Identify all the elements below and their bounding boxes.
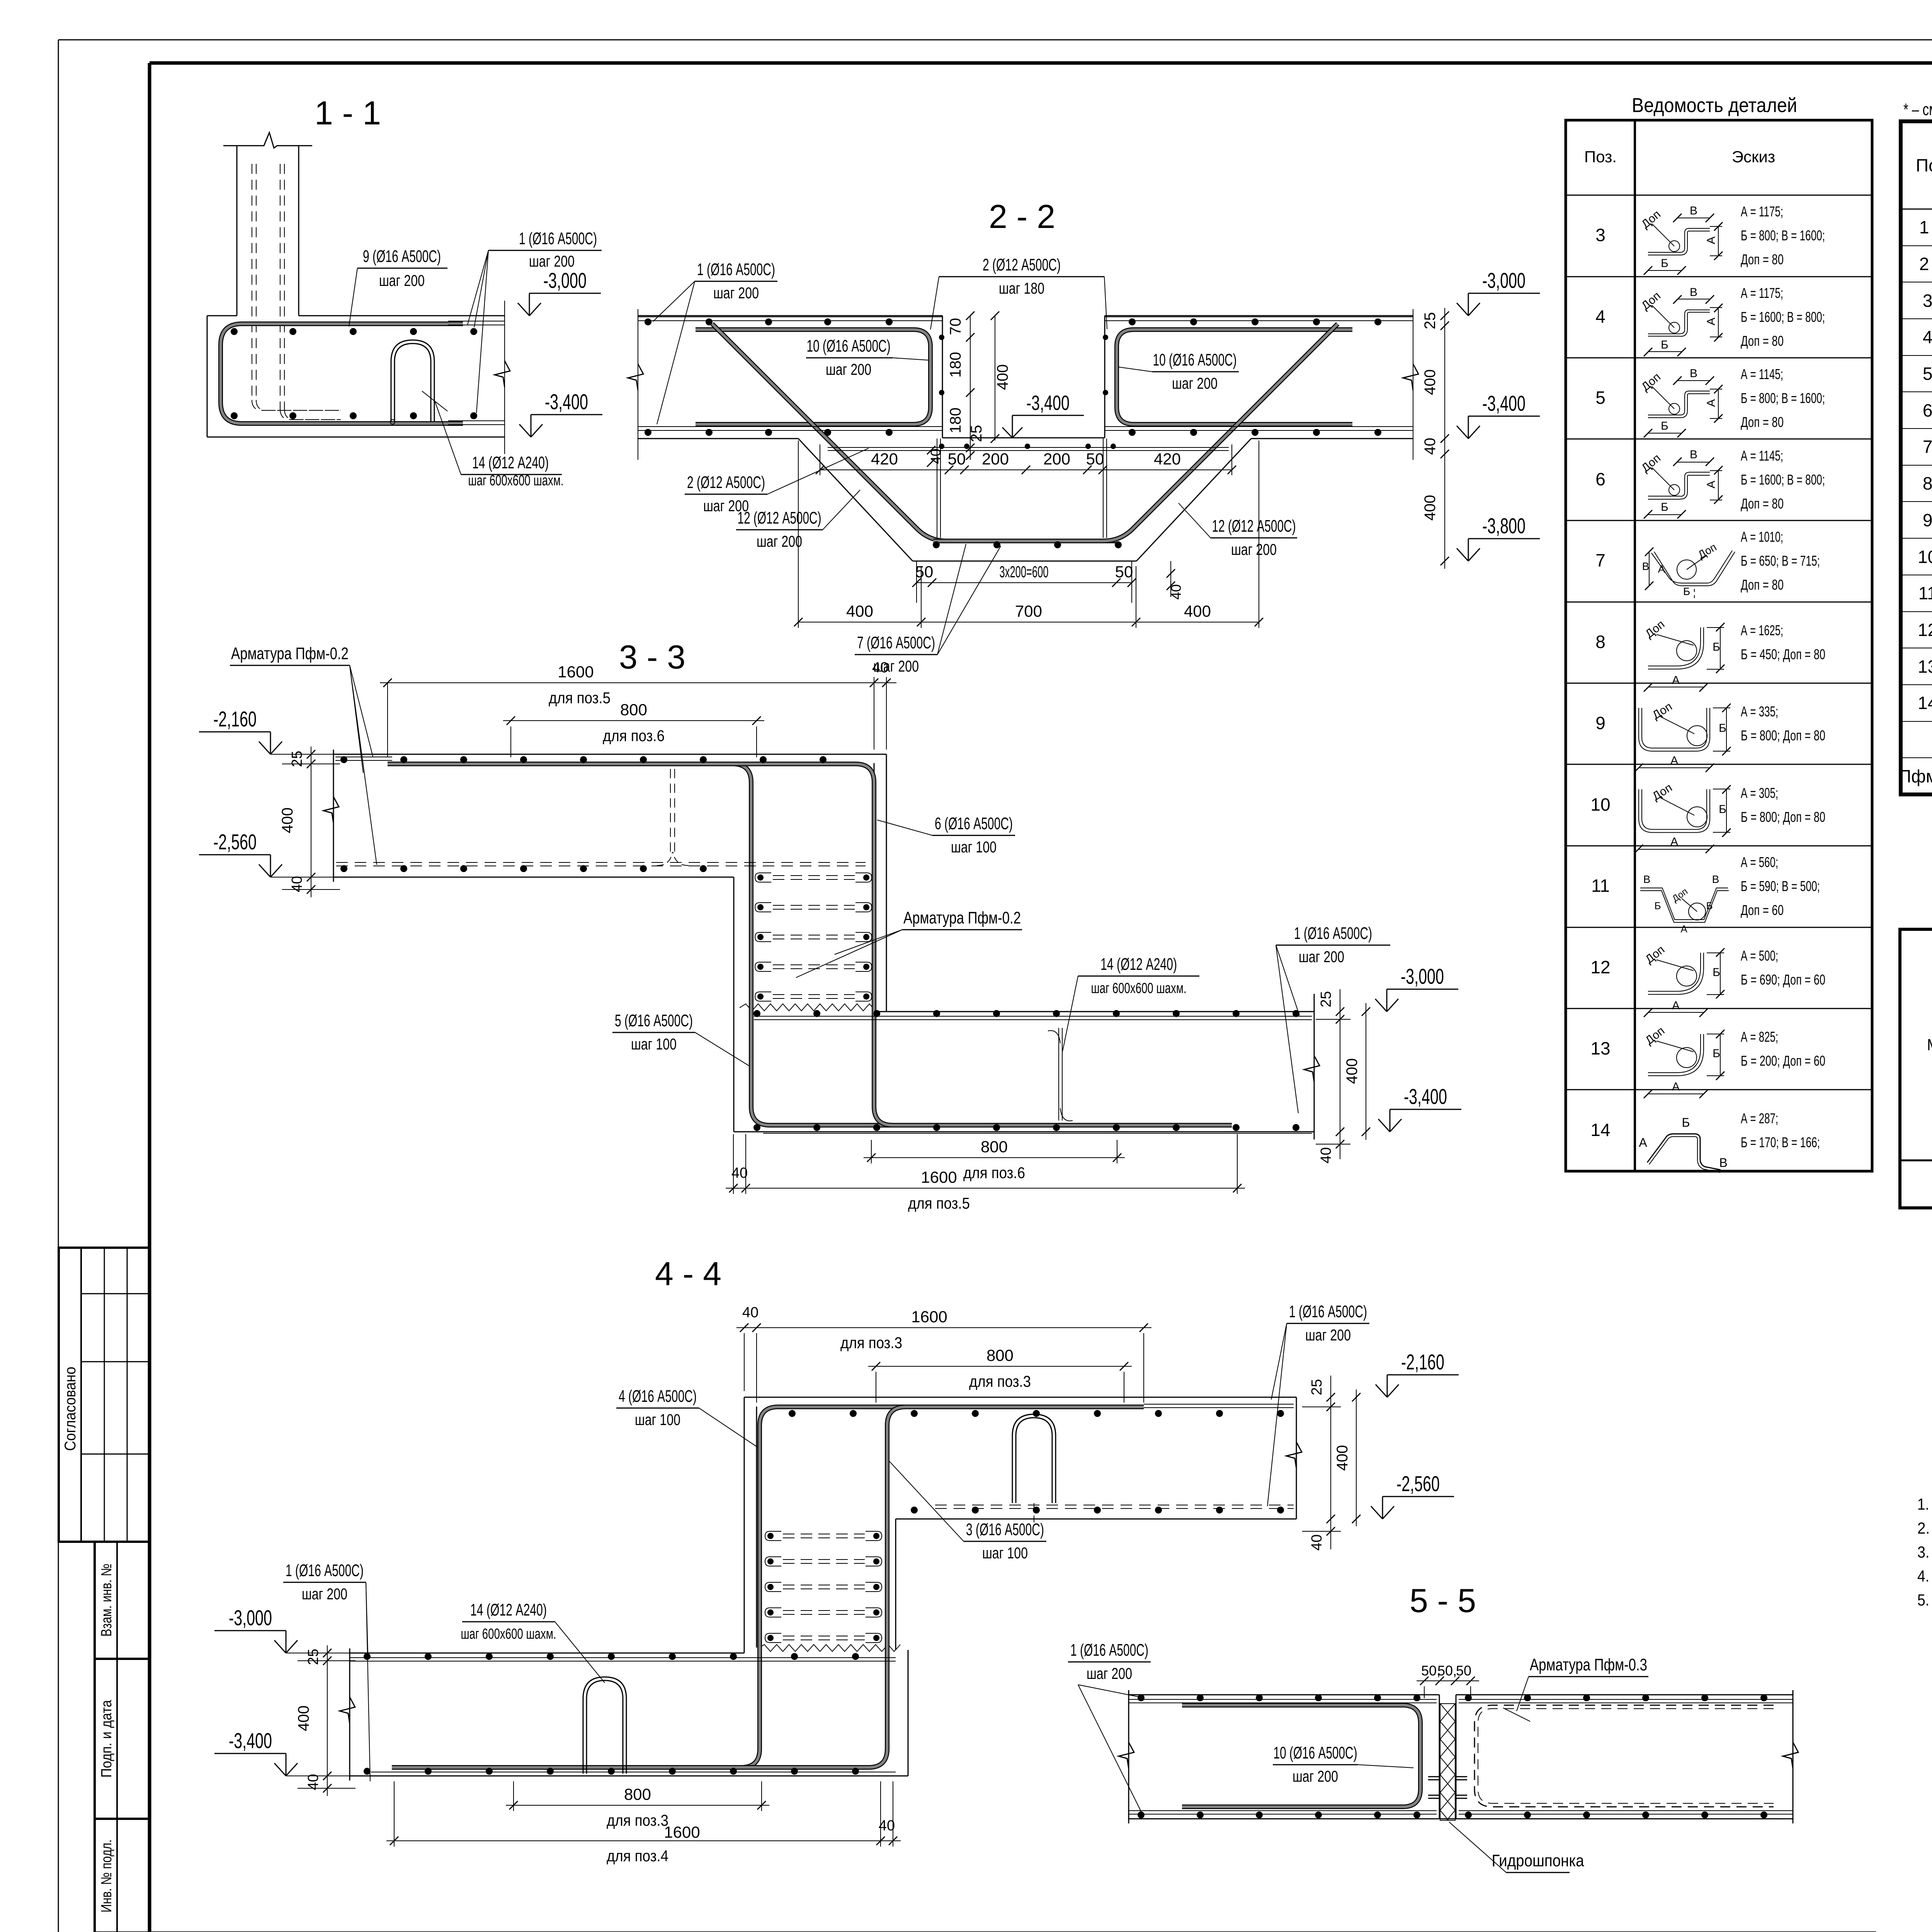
svg-text:7: 7 (1595, 550, 1605, 570)
section 3-3 label armatura Pfm-0.2 mid (796, 908, 1022, 978)
section 3-3 lower slab top thin bars (754, 1016, 1312, 1020)
svg-text:А = 287;: А = 287; (1741, 1111, 1778, 1126)
svg-text:В: В (1712, 873, 1719, 885)
svg-text:1600: 1600 (664, 1823, 700, 1841)
svg-text:Взам. инв. №: Взам. инв. № (99, 1564, 115, 1637)
svg-text:Б = 650; В = 715;: Б = 650; В = 715; (1741, 553, 1820, 569)
svg-text:Доп = 80: Доп = 80 (1741, 252, 1784, 267)
section 4-4 label 3 (889, 1461, 1046, 1562)
svg-text:Б: Б (1661, 338, 1668, 351)
section 4-4 level -2,560 right (1371, 1506, 1383, 1519)
svg-text:1600: 1600 (558, 663, 594, 681)
svg-text:50,: 50, (1437, 1663, 1457, 1679)
svg-text:В: В (1690, 367, 1697, 380)
svg-text:25: 25 (1309, 1379, 1325, 1395)
svg-text:25: 25 (1318, 991, 1334, 1007)
svg-text:Поз.: Поз. (1584, 148, 1617, 166)
svg-text:Б = 590; В = 500;: Б = 590; В = 500; (1741, 878, 1820, 894)
svg-text:Б = 690; Доп = 60: Б = 690; Доп = 60 (1741, 972, 1825, 988)
section 3-3 level -2,160 (259, 742, 270, 754)
section 3-3 label armatura Pfm-0.2 top (230, 644, 377, 865)
section 2-2 diagonal bar 12 right and pit bottom bar 7 (933, 324, 1338, 541)
section 4-4 label 4 (616, 1387, 757, 1447)
svg-text:-2,560: -2,560 (213, 830, 257, 854)
svg-text:25: 25 (289, 751, 305, 767)
section 3-3 concrete outline (333, 750, 1314, 1139)
parts list row pos.14 (1590, 1111, 1820, 1173)
svg-text:40: 40 (928, 449, 944, 464)
svg-text:7 *: 7 * (1923, 437, 1932, 457)
svg-text:шаг 600х600 шахм.: шаг 600х600 шахм. (468, 473, 564, 489)
section 5-5 left edge break (1119, 1742, 1134, 1769)
section 2-2 rebar bar 10 right (C bracket) (1117, 330, 1352, 424)
section 3-3 rebar dots upper slab (340, 756, 827, 872)
notes list (1917, 1495, 1932, 1609)
section 2-2 pit wall thin bars (828, 439, 1229, 538)
section 4-4 bottom dim 1600-40 dlya poz.4 (386, 1781, 901, 1865)
svg-text:700: 700 (1015, 602, 1042, 620)
parts list row pos.7 (1595, 529, 1820, 599)
svg-text:40: 40 (1168, 584, 1184, 600)
svg-text:7 (Ø16 А500С): 7 (Ø16 А500С) (857, 633, 935, 652)
svg-text:-3,400: -3,400 (1404, 1084, 1447, 1109)
svg-text:5: 5 (1595, 388, 1605, 408)
section 3-3 lower slab bottom thin bar (763, 1133, 1312, 1134)
svg-text:3 - 3: 3 - 3 (619, 639, 685, 676)
svg-text:-3,000: -3,000 (1482, 268, 1526, 293)
svg-text:40: 40 (305, 1774, 321, 1790)
svg-text:5. Схему установки элементов: 5. Схему установки элементов молниезащит… (1917, 1591, 1932, 1609)
section 3-3 right edge break (1304, 1056, 1320, 1082)
section 1-1 label bar 9 (349, 247, 447, 327)
svg-text:Б = 170; В = 166;: Б = 170; В = 166; (1741, 1134, 1820, 1150)
section 3-3 label 1 right (1276, 924, 1390, 1113)
svg-text:5 (Ø16 А500С): 5 (Ø16 А500С) (615, 1011, 693, 1030)
section 2-2 label 2 mid left (685, 448, 869, 515)
svg-text:1 - 1: 1 - 1 (315, 95, 381, 132)
section 3-3 level -3,000 right (1375, 999, 1387, 1012)
svg-text:для поз.5: для поз.5 (549, 689, 611, 707)
section 5-5 right rebar dots (1465, 1694, 1767, 1818)
section 4-4 hook bar 14 lower slab (583, 1677, 626, 1774)
specification row 10 (1918, 547, 1932, 567)
svg-text:шаг 200: шаг 200 (1305, 1326, 1351, 1344)
section 2-2 diagonal bar 12 left and pit bottom bar 7 (712, 324, 1117, 541)
Podp. i data box (95, 1659, 149, 1819)
section 2-2 label 1 top left (653, 260, 777, 424)
svg-text:4 *: 4 * (1923, 327, 1932, 347)
svg-text:9: 9 (1595, 713, 1605, 733)
svg-text:А: А (1680, 923, 1687, 935)
svg-text:10 (Ø16 А500С): 10 (Ø16 А500С) (1153, 350, 1237, 369)
svg-text:12 (Ø12 А500С): 12 (Ø12 А500С) (1212, 517, 1296, 536)
specification row 12 (1918, 620, 1932, 640)
specification row 13 (1918, 656, 1932, 677)
svg-text:6 (Ø16 А500С): 6 (Ø16 А500С) (935, 814, 1013, 833)
svg-text:Б = 1600; В = 800;: Б = 1600; В = 800; (1741, 472, 1825, 488)
svg-text:-2,160: -2,160 (213, 707, 257, 731)
svg-text:40: 40 (872, 660, 888, 676)
svg-text:шаг 200: шаг 200 (713, 284, 759, 302)
section 2-2 rebar dots top slab (645, 318, 1381, 436)
svg-text:2 (Ø12 А500С): 2 (Ø12 А500С) (983, 255, 1061, 274)
parts list row pos.13 (1590, 1024, 1825, 1098)
svg-text:180: 180 (947, 408, 964, 434)
svg-text:9 *: 9 * (1923, 510, 1932, 530)
section 3-3 bottom dim 40-1600 dlya poz.5 (726, 1134, 1245, 1212)
section 3-3 rebar dots lower slab (753, 1010, 1299, 1131)
section 5-5 label 10 (1273, 1743, 1413, 1785)
svg-text:180: 180 (947, 352, 964, 378)
svg-text:Б: Б (1713, 1047, 1720, 1060)
svg-text:Б: Б (1661, 257, 1668, 270)
svg-text:А = 1145;: А = 1145; (1741, 448, 1783, 464)
svg-text:Б = 450; Доп = 80: Б = 450; Доп = 80 (1741, 646, 1825, 662)
section 4-4 label 1 left (283, 1561, 370, 1781)
section 3-3 level -3,400 right (1378, 1119, 1390, 1132)
specification row 5 (1923, 364, 1932, 384)
svg-text:А = 1175;: А = 1175; (1741, 285, 1783, 301)
svg-text:4. Схема расположения выпуско: 4. Схема расположения выпусков см. л. 6. (1917, 1567, 1932, 1585)
svg-text:шаг 200: шаг 200 (1293, 1767, 1338, 1785)
section 4-4 hook bar 14 upper slab (1012, 1414, 1056, 1522)
svg-text:1 (Ø16 А500С): 1 (Ø16 А500С) (286, 1561, 364, 1580)
svg-text:Доп = 80: Доп = 80 (1741, 496, 1784, 512)
svg-text:800: 800 (986, 1346, 1014, 1364)
section 3-3 bottom dim 800 dlya poz.6 (864, 1138, 1125, 1182)
svg-text:Б = 800; Доп = 80: Б = 800; Доп = 80 (1741, 809, 1825, 825)
svg-text:14 (Ø12 А240): 14 (Ø12 А240) (1100, 955, 1177, 974)
parts list row pos.6 (1595, 448, 1825, 519)
section 2-2 right edge break (1403, 309, 1418, 460)
section 5-5 left rebar dots (1138, 1694, 1420, 1818)
svg-text:А = 1175;: А = 1175; (1741, 204, 1783, 219)
section 4-4 lower slab thin bars (350, 1658, 896, 1772)
svg-text:50: 50 (1115, 563, 1133, 581)
svg-text:Доп = 80: Доп = 80 (1741, 414, 1784, 430)
approval block (Soglasovano) (59, 1248, 149, 1542)
svg-text:А: А (1705, 236, 1718, 244)
specification row 4 (1923, 327, 1932, 347)
svg-text:А: А (1658, 563, 1665, 575)
section 1-1 label bar 14 (422, 391, 564, 489)
svg-text:шаг 200: шаг 200 (302, 1585, 347, 1603)
svg-text:3 (Ø16 А500С): 3 (Ø16 А500С) (966, 1520, 1044, 1539)
section 5-5 right dashed C bar (1475, 1705, 1774, 1807)
svg-text:А = 825;: А = 825; (1741, 1029, 1778, 1045)
svg-text:200: 200 (1043, 450, 1070, 468)
section 1-1 level -3,000 (518, 303, 529, 316)
svg-text:50: 50 (1456, 1663, 1471, 1679)
svg-text:А: А (1672, 674, 1680, 687)
svg-text:шаг 200: шаг 200 (529, 252, 575, 270)
specification row 6 (1923, 400, 1932, 420)
section 4-4 concrete outline (350, 1397, 1296, 1781)
svg-text:шаг 200: шаг 200 (826, 361, 871, 378)
svg-text:40: 40 (1422, 438, 1439, 455)
section 4-4 label 1 top right (1267, 1302, 1369, 1506)
svg-text:4 (Ø16 А500С): 4 (Ø16 А500С) (619, 1387, 697, 1406)
section 3-3 rebar bar 6 (inner L) (388, 764, 1232, 1125)
parts list row pos.10 (1590, 781, 1825, 853)
steel consumption table grid (1900, 929, 1932, 1208)
section 5-5 label gidroshponka (1449, 1822, 1584, 1872)
svg-text:3х200=600: 3х200=600 (1000, 563, 1049, 581)
section 5-5 right edge break (1783, 1742, 1798, 1769)
svg-text:1 (Ø16 А500С): 1 (Ø16 А500С) (1289, 1302, 1367, 1321)
svg-text:шаг 100: шаг 100 (631, 1035, 677, 1053)
svg-text:В: В (1690, 204, 1697, 217)
svg-text:11 *: 11 * (1918, 583, 1932, 603)
svg-text:шаг 200: шаг 200 (757, 532, 802, 550)
svg-text:для поз.5: для поз.5 (908, 1194, 970, 1212)
svg-text:40: 40 (742, 1304, 759, 1321)
svg-text:Согласовано: Согласовано (62, 1367, 79, 1451)
svg-text:2 **: 2 ** (1919, 254, 1932, 274)
specification row 14 (1918, 693, 1932, 713)
svg-text:1 (Ø16 А500С): 1 (Ø16 А500С) (519, 229, 597, 248)
section 2-2 small dim 40 left pit (927, 446, 944, 467)
section 3-3 left edge break (323, 797, 339, 823)
svg-text:Б: Б (1713, 966, 1720, 979)
svg-text:А: А (1705, 399, 1718, 407)
section 2-2 pit vertical dims 70-180-180-25 (947, 311, 1011, 460)
svg-text:400: 400 (1422, 495, 1439, 521)
svg-text:3. Опалубку плиты см. л. 2.: 3. Опалубку плиты см. л. 2. (1917, 1543, 1932, 1561)
svg-text:400: 400 (1422, 369, 1439, 395)
svg-text:Б: Б (1719, 803, 1726, 816)
svg-text:400: 400 (846, 602, 873, 620)
section 2-2 dimension chain 50-600-50 (912, 561, 1136, 603)
svg-text:Б: Б (1661, 501, 1668, 514)
svg-text:Арматура Пфм-0.2: Арматура Пфм-0.2 (903, 908, 1021, 927)
svg-text:1 (Ø16 А500С): 1 (Ø16 А500С) (1070, 1641, 1148, 1660)
section 2-2 left edge break (628, 309, 643, 460)
svg-text:400: 400 (1344, 1058, 1361, 1084)
section 3-3 top dim 1600 dlya poz.5 (380, 660, 896, 757)
svg-text:В: В (1690, 448, 1697, 461)
svg-text:420: 420 (1154, 450, 1181, 468)
svg-text:-3,400: -3,400 (1026, 391, 1070, 415)
svg-text:Б: Б (1713, 641, 1720, 653)
section 1-1 rebar bar 9 (U bracket) (221, 324, 463, 423)
svg-text:4 - 4: 4 - 4 (655, 1255, 721, 1293)
svg-text:4: 4 (1595, 306, 1605, 327)
svg-text:10 *: 10 * (1918, 547, 1932, 567)
svg-text:для поз.6: для поз.6 (603, 727, 665, 745)
section 5-5 label armatura Pfm-0.3 (1503, 1655, 1648, 1721)
section 4-4 rebar dots upper slab (789, 1410, 1284, 1514)
section 3-3 label 6 (877, 814, 1015, 856)
section 2-2 label 7 bottom (855, 544, 1001, 675)
section 5-5 waterstop joint (1428, 1668, 1467, 1846)
svg-text:6 *: 6 * (1923, 400, 1932, 420)
svg-text:шаг 200: шаг 200 (379, 272, 425, 289)
svg-text:1. Общие указания по армирова: 1. Общие указания по армированию и бетон… (1917, 1495, 1932, 1513)
svg-text:2 (Ø12 А500С): 2 (Ø12 А500С) (687, 473, 765, 492)
svg-text:шаг 600х600 шахм.: шаг 600х600 шахм. (461, 1626, 556, 1642)
svg-text:25: 25 (305, 1649, 321, 1665)
svg-text:Б: Б (1706, 900, 1713, 912)
section 4-4 construction joint zigzag (758, 1645, 900, 1651)
section 3-3 left dim chain 25-400-40 (270, 747, 340, 897)
section 4-4 label 14 (461, 1600, 605, 1683)
svg-text:шаг 180: шаг 180 (999, 279, 1044, 297)
section 3-3 wall dashed rows with end hooks (755, 873, 872, 1001)
svg-text:1 **: 1 ** (1919, 217, 1932, 237)
svg-text:400: 400 (994, 364, 1011, 390)
section 1-1 right extension and break (479, 301, 510, 454)
section 3-3 right dim chain 25-400-40 (1316, 989, 1370, 1163)
svg-text:А: А (1639, 1136, 1647, 1150)
specification table header (1916, 144, 1932, 187)
section 3-3 upper slab vertical dashed pair (657, 769, 689, 866)
svg-text:А = 335;: А = 335; (1741, 704, 1778, 719)
svg-text:400: 400 (295, 1706, 312, 1731)
svg-text:9 (Ø16 А500С): 9 (Ø16 А500С) (363, 247, 441, 266)
specification row 8 (1923, 473, 1932, 493)
svg-text:-3,000: -3,000 (1401, 964, 1444, 988)
section 5-5 slab outline (1129, 1690, 1793, 1823)
section 1-1 wall outline (223, 133, 312, 316)
specification row 3 (1923, 291, 1932, 311)
section 4-4 level -3,000 left (274, 1640, 286, 1653)
svg-text:12 *: 12 * (1918, 620, 1932, 640)
section 2-2 level -3,400 right (1457, 426, 1468, 439)
section 1-1 slab outline (207, 316, 505, 437)
specification row 7 (1923, 437, 1932, 457)
section 2-2 label 2 top (shag 180) (930, 255, 1107, 330)
svg-text:Эскиз: Эскиз (1732, 148, 1775, 166)
svg-text:А: А (1705, 481, 1718, 488)
section 1-1 label bar 1 (468, 229, 602, 413)
svg-text:А = 1145;: А = 1145; (1741, 366, 1783, 382)
section 3-3 top dim 800 dlya poz.6 (503, 701, 764, 757)
svg-text:шаг 100: шаг 100 (635, 1411, 680, 1429)
svg-text:А: А (1705, 318, 1718, 325)
section 1-1 rebar dots (231, 328, 477, 419)
svg-text:А: А (1670, 754, 1678, 767)
section 4-4 level -3,400 left (274, 1763, 286, 1776)
section 2-2 label 10 left (806, 337, 928, 378)
specification row 11 (1918, 583, 1932, 603)
svg-text:8: 8 (1595, 632, 1605, 652)
svg-text:14 (Ø12 А240): 14 (Ø12 А240) (472, 453, 549, 472)
svg-text:А: А (1672, 1080, 1680, 1093)
parts list row pos.11 (1591, 854, 1820, 935)
svg-text:13: 13 (1590, 1038, 1610, 1058)
section 5-5 rebar bar 10 (C bracket) (1182, 1705, 1420, 1807)
section 4-4 rebar bar 3 (inner L) (392, 1407, 1144, 1767)
svg-text:* – см. ведомость деталей, **: * – см. ведомость деталей, ** – стержни … (1903, 100, 1932, 119)
svg-text:В: В (1642, 560, 1650, 572)
section 4-4 right dim chain 25-400-40 (1302, 1376, 1361, 1551)
svg-text:Б = 800; Доп = 80: Б = 800; Доп = 80 (1741, 728, 1825, 743)
svg-text:шаг 600х600 шахм.: шаг 600х600 шахм. (1091, 980, 1187, 997)
svg-text:для поз.6: для поз.6 (963, 1164, 1025, 1182)
section 2-2 level -3,800 right (1457, 548, 1468, 561)
svg-text:А = 1010;: А = 1010; (1741, 529, 1783, 545)
svg-text:50: 50 (1086, 450, 1104, 468)
parts list row pos.9 (1595, 700, 1825, 772)
svg-text:40: 40 (1309, 1534, 1325, 1551)
svg-text:-3,400: -3,400 (1482, 391, 1526, 415)
section 5-5 left thin bars pos.1 (1129, 1699, 1437, 1814)
section 1-1 hook bar pos.14 (390, 340, 434, 424)
svg-text:Доп = 80: Доп = 80 (1741, 577, 1784, 593)
svg-text:1 (Ø16 А500С): 1 (Ø16 А500С) (697, 260, 775, 279)
section 3-3 construction joint zigzag (740, 1004, 876, 1011)
svg-text:400: 400 (279, 808, 296, 833)
svg-text:-3,400: -3,400 (545, 389, 588, 414)
section 4-4 rebar dots lower slab (364, 1653, 859, 1775)
svg-text:шаг 100: шаг 100 (982, 1544, 1028, 1562)
svg-text:Б = 800; В = 1600;: Б = 800; В = 1600; (1741, 390, 1825, 406)
svg-text:800: 800 (620, 701, 647, 719)
svg-text:14 *: 14 * (1918, 693, 1932, 713)
svg-text:шаг 200: шаг 200 (1172, 374, 1218, 392)
svg-text:2. Перед производством работ: 2. Перед производством работ по монтажу … (1917, 1519, 1932, 1537)
svg-text:10 (Ø16 А500С): 10 (Ø16 А500С) (807, 337, 891, 355)
svg-text:1 (Ø16 А500С): 1 (Ø16 А500С) (1294, 924, 1372, 943)
section 1-1 thin bars pos.1 (448, 321, 505, 425)
svg-text:А = 500;: А = 500; (1741, 948, 1778, 964)
section 5-5 label 1 (1068, 1641, 1151, 1814)
svg-text:Марка конструкции: Марка конструкции (1927, 1036, 1932, 1054)
section 4-4 bottom dim 800 dlya poz.3 (506, 1781, 769, 1829)
parts list table grid (1566, 120, 1872, 1171)
section 2-2 level -3,000 right (1457, 303, 1468, 316)
section 3-3 rebar bar 5 (outer L) (388, 764, 1232, 1125)
svg-text:Подп. и дата: Подп. и дата (99, 1700, 115, 1778)
svg-text:8 *: 8 * (1923, 473, 1932, 493)
Vzam. inv. box (95, 1542, 149, 1659)
section 4-4 left edge break (340, 1697, 355, 1723)
svg-text:400: 400 (1184, 602, 1211, 620)
svg-text:12 (Ø12 А500С): 12 (Ø12 А500С) (738, 509, 821, 527)
section 2-2 dimension chain 420-50-200-200-50-420 (816, 444, 1236, 475)
svg-text:Инв. № подл.: Инв. № подл. (99, 1840, 115, 1913)
svg-text:25: 25 (1422, 312, 1439, 330)
svg-text:-2,560: -2,560 (1396, 1471, 1440, 1496)
svg-text:Гидрошпонка: Гидрошпонка (1492, 1851, 1584, 1870)
svg-text:13 *: 13 * (1918, 656, 1932, 677)
svg-text:шаг 200: шаг 200 (1231, 541, 1277, 558)
section 2-2 rebar bar 10 left (C bracket) (696, 330, 930, 424)
svg-text:50: 50 (915, 563, 934, 581)
svg-text:Пфм-0.1: Пфм-0.1 (1898, 766, 1932, 786)
svg-text:6: 6 (1595, 469, 1605, 489)
svg-text:-3,800: -3,800 (1482, 514, 1526, 538)
svg-text:шаг 200: шаг 200 (1087, 1665, 1132, 1682)
section 2-2 slab outline (638, 316, 1413, 561)
svg-text:-3,400: -3,400 (229, 1728, 272, 1753)
svg-text:10: 10 (1590, 794, 1610, 815)
section 4-4 upper slab thin bars pos.1 (935, 1404, 1294, 1509)
svg-text:14: 14 (1590, 1120, 1610, 1140)
svg-text:Б: Б (1661, 420, 1668, 432)
svg-text:3: 3 (1595, 225, 1605, 245)
section 4-4 right edge break (1286, 1442, 1302, 1468)
svg-text:40: 40 (731, 1165, 748, 1181)
svg-text:14 (Ø12 А240): 14 (Ø12 А240) (470, 1600, 547, 1619)
svg-text:25: 25 (968, 425, 985, 442)
svg-text:Доп = 80: Доп = 80 (1741, 333, 1784, 349)
parts list row pos.4 (1595, 285, 1825, 356)
svg-text:Б: Б (1719, 722, 1726, 735)
svg-text:для поз.3: для поз.3 (969, 1372, 1031, 1390)
svg-text:Арматура Пфм-0.2: Арматура Пфм-0.2 (231, 644, 349, 663)
